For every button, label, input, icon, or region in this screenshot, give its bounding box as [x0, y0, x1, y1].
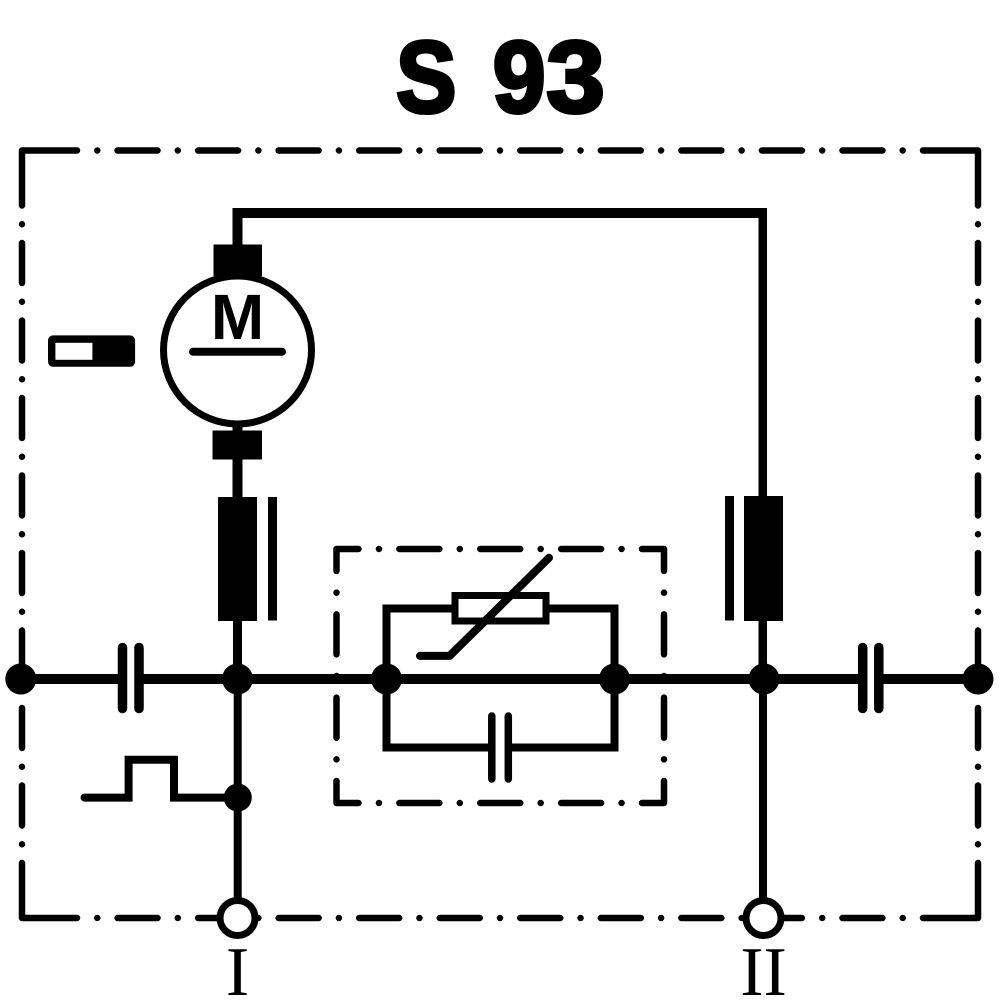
wire main horizontal right segment	[883, 674, 978, 684]
motor M1 bar	[193, 348, 282, 356]
direction indicator icon	[48, 335, 135, 366]
inductor L1 body	[218, 497, 257, 621]
wire main horizontal middle segment	[144, 674, 859, 684]
terminal I circle	[220, 901, 255, 936]
node dot right border	[963, 664, 994, 695]
motor M1 top brush	[214, 245, 263, 277]
svg-text:II: II	[740, 934, 787, 1000]
capacitor C2 plates (right)	[858, 648, 868, 709]
terminal II circle	[746, 901, 781, 936]
wire suppression branch bottom right	[510, 744, 615, 752]
wire suppression branch right vertical	[611, 605, 619, 752]
suppression network box (dash-dot inner box)	[337, 549, 665, 803]
node dot motor branch	[222, 664, 253, 695]
inductor L2 core line	[725, 496, 734, 621]
inductor L1 core line	[268, 497, 277, 621]
node dot suppression left	[371, 664, 402, 695]
motor M1 bottom brush	[213, 431, 263, 460]
wire motor vertical down to terminal I	[233, 246, 243, 510]
svg-text:9: 9	[493, 20, 546, 133]
node dot suppression right	[599, 664, 630, 695]
varistor R1 diagonal stroke	[420, 558, 549, 656]
wire inductor to main line	[233, 610, 242, 684]
varistor R1 body	[455, 596, 546, 622]
wire suppression branch left vertical	[383, 605, 391, 752]
pulse signal symbol	[85, 760, 233, 798]
wire top loop from motor to right branch	[238, 213, 767, 250]
wire main horizontal left segment	[20, 674, 118, 684]
capacitor C3 plates (inner)	[488, 716, 496, 779]
capacitor C1 plates (left)	[118, 648, 128, 709]
node dot left border	[5, 664, 36, 695]
node dot pulse junction	[224, 784, 252, 812]
wire right branch vertical	[759, 208, 768, 683]
inductor L2 body	[744, 496, 783, 621]
svg-text:M: M	[211, 281, 264, 353]
wire main line to terminal I	[234, 674, 242, 901]
svg-text:I: I	[226, 934, 249, 1000]
wire suppression branch bottom left	[387, 744, 491, 752]
wire terminal II vertical	[759, 674, 767, 901]
wire suppression branch top	[387, 605, 615, 613]
enclosure border (dash-dot outer box)	[22, 151, 978, 919]
motor M1 body	[164, 276, 312, 424]
svg-text:S: S	[396, 21, 456, 134]
title S 93	[396, 20, 605, 134]
svg-text:3: 3	[546, 21, 604, 134]
node dot terminal II branch	[749, 664, 780, 695]
